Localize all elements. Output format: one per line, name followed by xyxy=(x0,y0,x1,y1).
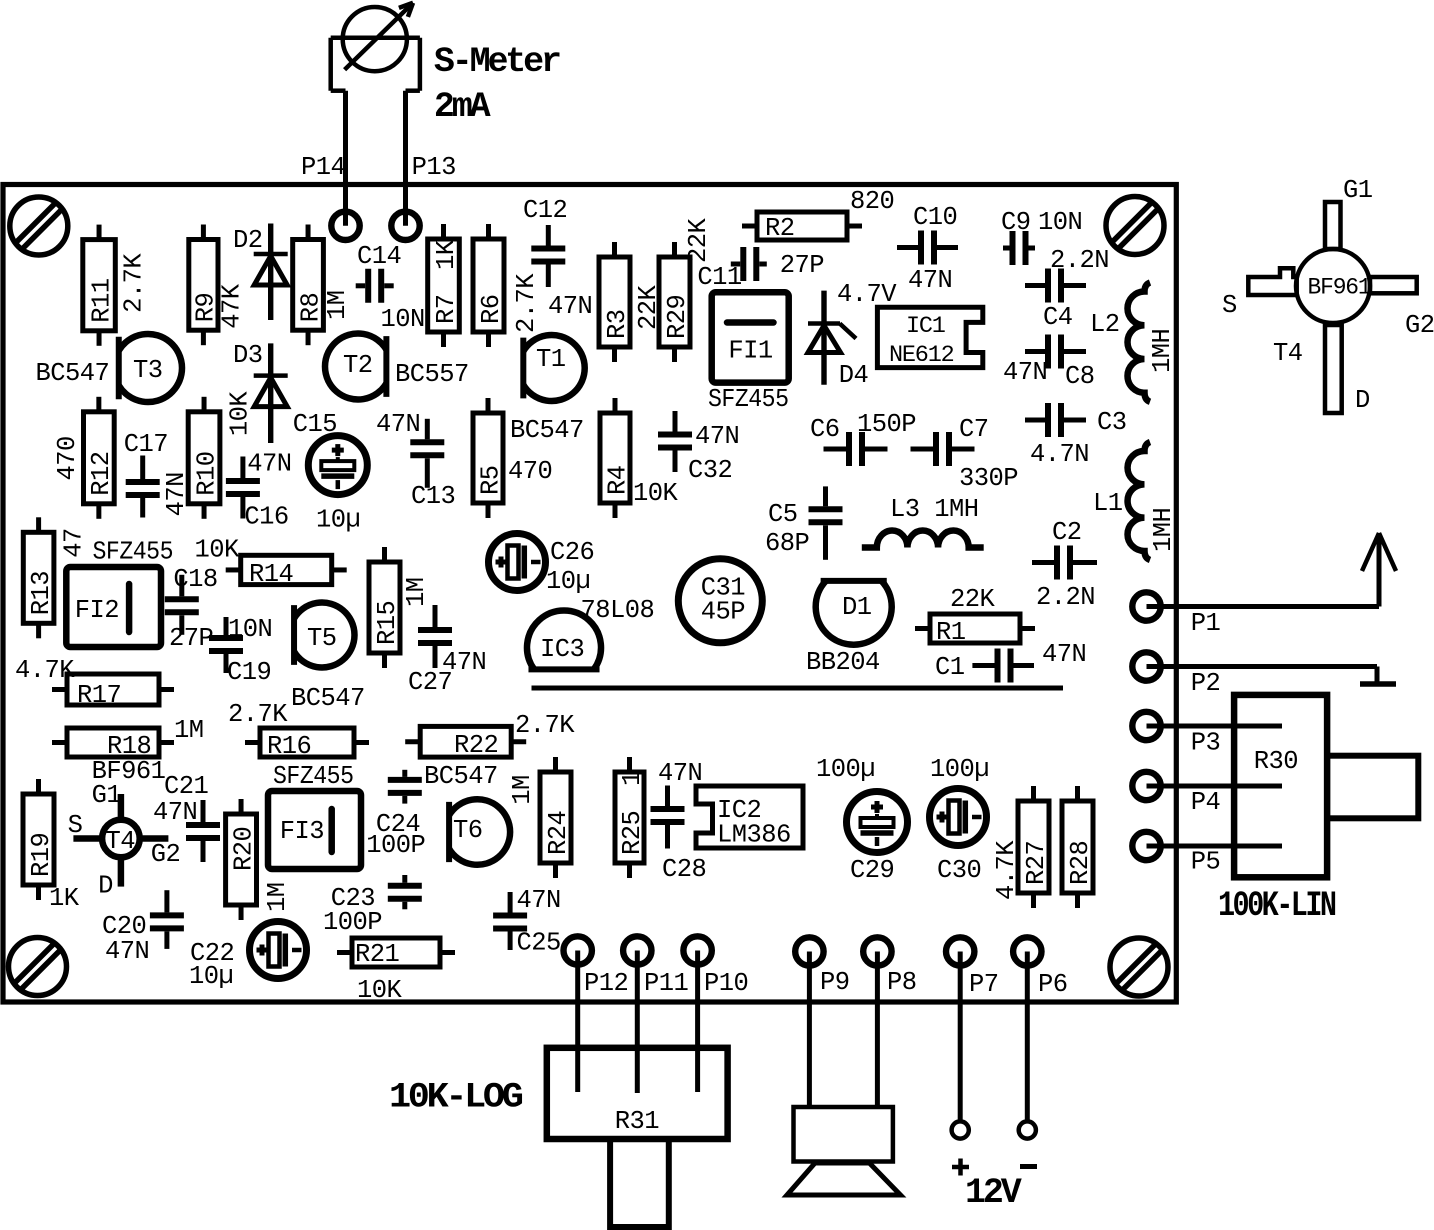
svg-text:R7: R7 xyxy=(432,294,461,324)
svg-text:10µ: 10µ xyxy=(546,567,590,596)
wire ground bus xyxy=(532,686,1064,691)
svg-text:R16: R16 xyxy=(267,732,311,761)
svg-text:10µ: 10µ xyxy=(189,962,233,991)
capacitor C23 xyxy=(323,875,422,937)
resistor R21 xyxy=(337,938,455,1005)
svg-text:R12: R12 xyxy=(87,452,116,496)
svg-text:R2: R2 xyxy=(765,214,795,243)
svg-text:P1: P1 xyxy=(1191,609,1221,638)
svg-text:C6: C6 xyxy=(810,415,840,444)
transistor T3 xyxy=(36,334,183,402)
resistor R29 xyxy=(659,217,713,362)
svg-text:P7: P7 xyxy=(969,970,999,999)
svg-text:4.7V: 4.7V xyxy=(837,280,897,309)
capacitor C27 xyxy=(408,605,486,697)
svg-text:C11: C11 xyxy=(697,263,742,292)
svg-text:SFZ455: SFZ455 xyxy=(273,762,354,791)
diode D1 (BB204) xyxy=(806,581,892,677)
svg-text:C21: C21 xyxy=(164,772,209,801)
ground symbol xyxy=(1360,681,1396,687)
resistor R25 xyxy=(615,757,647,878)
transistor T2 xyxy=(325,334,469,400)
svg-text:R6: R6 xyxy=(477,294,506,324)
svg-text:47: 47 xyxy=(59,528,88,558)
svg-text:P4: P4 xyxy=(1191,788,1221,817)
resistor R15 xyxy=(369,547,431,668)
svg-text:C16: C16 xyxy=(244,502,288,531)
svg-text:D2: D2 xyxy=(233,226,263,255)
svg-text:2.2N: 2.2N xyxy=(1050,246,1109,275)
svg-text:47N: 47N xyxy=(376,410,420,439)
svg-text:T1: T1 xyxy=(536,345,566,374)
wire P2 to ground xyxy=(1147,664,1378,669)
capacitor C22 (electrolytic) xyxy=(189,922,307,992)
resistor R3 xyxy=(599,242,663,362)
potentiometer R30 xyxy=(1218,695,1418,926)
svg-text:1MH: 1MH xyxy=(1148,329,1177,373)
svg-text:FI2: FI2 xyxy=(75,596,119,625)
svg-text:BF961: BF961 xyxy=(1308,274,1371,301)
resistor R6 xyxy=(473,224,541,347)
svg-text:47N: 47N xyxy=(695,422,739,451)
pad P11 xyxy=(623,936,688,998)
svg-text:R21: R21 xyxy=(355,940,400,969)
svg-text:2.7K: 2.7K xyxy=(120,253,149,313)
mounting hole bottom-right screw xyxy=(1110,938,1168,996)
capacitor C10 xyxy=(897,203,958,295)
svg-text:1K: 1K xyxy=(432,239,461,270)
svg-text:470: 470 xyxy=(53,436,82,480)
wire P13 to S-Meter xyxy=(403,91,408,226)
svg-text:2.7K: 2.7K xyxy=(228,700,288,729)
svg-text:1M: 1M xyxy=(402,577,431,607)
capacitor C24 xyxy=(366,770,425,860)
transistor T4 pinout (BF961) xyxy=(1222,176,1434,415)
svg-text:12V: 12V xyxy=(965,1173,1022,1213)
svg-text:2.7K: 2.7K xyxy=(515,711,575,740)
resistor R20 xyxy=(226,799,292,920)
svg-text:330P: 330P xyxy=(959,464,1018,493)
svg-text:47N: 47N xyxy=(548,292,592,321)
wire P5 to R30 xyxy=(1147,844,1283,849)
svg-text:LM386: LM386 xyxy=(717,821,791,850)
capacitor C11 xyxy=(697,247,824,292)
svg-text:R19: R19 xyxy=(27,833,56,877)
wire P7 to supply + xyxy=(958,952,963,1122)
svg-text:BC547: BC547 xyxy=(291,684,365,713)
svg-text:10µ: 10µ xyxy=(316,505,360,534)
capacitor C16 xyxy=(226,450,292,532)
svg-text:R28: R28 xyxy=(1066,841,1095,885)
capacitor C5 xyxy=(765,486,843,559)
resistor R10 xyxy=(188,391,254,519)
resistor R5 xyxy=(473,398,552,518)
pad P7 xyxy=(946,937,999,999)
capacitor C7 xyxy=(911,415,1019,493)
pad P6 xyxy=(1013,937,1067,999)
svg-text:R20: R20 xyxy=(229,827,258,871)
svg-text:R1: R1 xyxy=(936,618,966,647)
svg-text:1M: 1M xyxy=(508,775,537,805)
svg-text:C4: C4 xyxy=(1043,303,1073,332)
svg-text:IC1: IC1 xyxy=(906,313,945,340)
svg-text:1M: 1M xyxy=(263,882,292,912)
pad P12 xyxy=(564,936,629,998)
inductor L2 xyxy=(1090,283,1177,402)
capacitor C13 xyxy=(376,410,455,511)
svg-text:T3: T3 xyxy=(133,356,163,385)
svg-text:D3: D3 xyxy=(233,341,263,370)
svg-text:BC547: BC547 xyxy=(510,416,584,445)
svg-text:C9: C9 xyxy=(1001,208,1031,237)
capacitor C31 (trimmer) xyxy=(678,559,762,643)
svg-text:D4: D4 xyxy=(839,361,869,390)
svg-text:BB204: BB204 xyxy=(806,648,880,677)
svg-text:D: D xyxy=(1355,386,1370,415)
pad P9 xyxy=(795,937,849,997)
svg-text:R3: R3 xyxy=(603,309,632,339)
inductor L1 xyxy=(1093,442,1178,560)
wire P6 to supply - xyxy=(1025,952,1030,1122)
resistor R14 xyxy=(195,536,347,589)
svg-text:10K: 10K xyxy=(195,536,241,565)
capacitor C12 xyxy=(523,196,592,321)
svg-text:10K: 10K xyxy=(633,479,679,508)
svg-text:1M: 1M xyxy=(323,290,352,320)
IF filter FI1 xyxy=(708,292,789,414)
mounting hole bottom-left screw xyxy=(9,938,67,996)
svg-text:R27: R27 xyxy=(1022,841,1051,885)
pad P2 xyxy=(1132,652,1220,698)
capacitor C32 xyxy=(658,411,739,485)
svg-text:68P: 68P xyxy=(765,529,809,558)
svg-text:10N: 10N xyxy=(1038,208,1082,237)
svg-text:C5: C5 xyxy=(768,500,798,529)
svg-text:P2: P2 xyxy=(1191,669,1221,698)
pad P3 xyxy=(1132,712,1220,758)
svg-text:820: 820 xyxy=(850,187,894,216)
resistor R18 xyxy=(52,716,204,761)
svg-text:150P: 150P xyxy=(857,410,916,439)
svg-text:10N: 10N xyxy=(228,615,272,644)
resistor R9 xyxy=(189,225,247,346)
capacitor C14 xyxy=(356,242,425,334)
svg-text:R11: R11 xyxy=(87,278,116,323)
svg-text:100K-LIN: 100K-LIN xyxy=(1218,886,1335,926)
resistor R19 xyxy=(23,779,80,913)
svg-text:P3: P3 xyxy=(1191,729,1221,758)
svg-text:G2: G2 xyxy=(1405,311,1434,340)
diode D2 xyxy=(233,224,288,321)
mounting hole top-left screw xyxy=(10,197,68,255)
svg-text:P8: P8 xyxy=(887,968,917,997)
svg-text:100µ: 100µ xyxy=(816,755,875,784)
svg-text:P9: P9 xyxy=(820,968,850,997)
IC U1 (IC1 NE612) xyxy=(877,307,982,369)
pad P14 xyxy=(301,153,360,240)
svg-text:R15: R15 xyxy=(373,601,402,645)
svg-text:C15: C15 xyxy=(293,410,337,439)
svg-text:10K: 10K xyxy=(357,976,403,1005)
svg-text:C12: C12 xyxy=(523,196,567,225)
svg-text:C2: C2 xyxy=(1052,518,1082,547)
svg-text:10K: 10K xyxy=(225,391,254,437)
capacitor C6 xyxy=(810,410,916,466)
svg-text:P11: P11 xyxy=(644,969,689,998)
capacitor C25 xyxy=(493,886,561,957)
svg-text:T4: T4 xyxy=(1273,339,1303,368)
wire P4 to R30 xyxy=(1147,784,1283,789)
mounting hole top-right screw xyxy=(1106,197,1164,255)
svg-text:4.7N: 4.7N xyxy=(1030,440,1089,469)
resistor R17 xyxy=(15,656,174,710)
capacitor C8 xyxy=(1003,335,1095,392)
svg-text:100µ: 100µ xyxy=(930,755,989,784)
svg-text:78L08: 78L08 xyxy=(581,596,655,625)
svg-text:47N: 47N xyxy=(517,886,561,915)
svg-text:C30: C30 xyxy=(937,856,981,885)
svg-text:BC557: BC557 xyxy=(395,360,469,389)
pad P1 xyxy=(1132,592,1220,638)
capacitor C2 xyxy=(1032,518,1097,612)
svg-text:R5: R5 xyxy=(476,465,505,495)
wire P12 to R31 xyxy=(575,951,580,1093)
svg-text:10K-LOG: 10K-LOG xyxy=(389,1078,523,1118)
svg-text:FI3: FI3 xyxy=(280,817,324,846)
svg-text:T4: T4 xyxy=(106,827,136,856)
capacitor C19 xyxy=(209,615,272,687)
svg-text:D1: D1 xyxy=(842,593,872,622)
svg-text:FI1: FI1 xyxy=(728,337,773,366)
resistor R28 xyxy=(1062,786,1095,908)
svg-text:T6: T6 xyxy=(453,816,483,845)
svg-text:C14: C14 xyxy=(357,242,401,271)
svg-text:T2: T2 xyxy=(343,351,373,380)
svg-text:470: 470 xyxy=(508,457,552,486)
IF filter FI2 xyxy=(66,538,173,647)
svg-text:22K: 22K xyxy=(684,217,713,263)
resistor R4 xyxy=(600,398,679,518)
svg-text:2.7K: 2.7K xyxy=(512,273,541,333)
pad P8 xyxy=(863,937,916,997)
svg-text:P10: P10 xyxy=(704,969,748,998)
pad P4 xyxy=(1132,772,1220,817)
svg-text:SFZ455: SFZ455 xyxy=(708,385,789,414)
svg-text:47N: 47N xyxy=(153,798,197,827)
capacitor C18 xyxy=(165,565,218,653)
capacitor C17 xyxy=(124,430,191,518)
wire P8 to speaker xyxy=(875,952,880,1108)
svg-text:1: 1 xyxy=(618,771,647,786)
svg-text:G2: G2 xyxy=(151,840,181,869)
svg-text:1K: 1K xyxy=(49,884,80,913)
svg-text:47N: 47N xyxy=(1042,640,1086,669)
svg-text:10N: 10N xyxy=(381,305,425,334)
wire P11 to R31 xyxy=(635,951,640,1094)
diode D3 xyxy=(233,341,288,443)
speaker xyxy=(787,1107,901,1195)
svg-text:C32: C32 xyxy=(688,456,732,485)
svg-text:47N: 47N xyxy=(247,450,291,479)
capacitor C21 xyxy=(153,772,220,862)
resistor R11 xyxy=(83,225,149,346)
resistor R22 xyxy=(405,711,575,791)
svg-text:L3 1MH: L3 1MH xyxy=(890,495,979,524)
svg-text:G1: G1 xyxy=(92,781,122,810)
svg-text:T5: T5 xyxy=(307,624,337,653)
capacitor C9 xyxy=(1001,208,1082,265)
capacitor C3 xyxy=(1025,403,1127,469)
transistor T4 (on-board) xyxy=(68,781,181,900)
svg-text:47K: 47K xyxy=(218,283,247,329)
svg-text:R17: R17 xyxy=(77,681,121,710)
svg-text:R30: R30 xyxy=(1254,747,1298,776)
svg-text:C19: C19 xyxy=(227,658,271,687)
svg-text:C8: C8 xyxy=(1065,362,1095,391)
svg-text:IC3: IC3 xyxy=(540,635,584,664)
IC U2 (IC2 LM386) xyxy=(696,786,803,850)
svg-text:R25: R25 xyxy=(618,811,647,855)
supply terminal - xyxy=(1019,1121,1037,1166)
svg-text:27P: 27P xyxy=(169,624,213,653)
resistor R7 xyxy=(428,224,461,347)
svg-text:C3: C3 xyxy=(1097,408,1127,437)
svg-text:R29: R29 xyxy=(663,295,692,339)
svg-text:C1: C1 xyxy=(935,653,965,682)
svg-text:R8: R8 xyxy=(296,293,325,323)
svg-text:C25: C25 xyxy=(517,929,561,958)
svg-text:1MH: 1MH xyxy=(1149,508,1178,552)
capacitor C15 (electrolytic) xyxy=(293,410,368,534)
wire P10 to R31 xyxy=(695,951,700,1093)
resistor R27 xyxy=(992,786,1051,908)
voltage regulator IC3 (78L08) xyxy=(527,596,654,669)
svg-text:R10: R10 xyxy=(192,452,221,496)
svg-text:C7: C7 xyxy=(959,415,989,444)
svg-text:L2: L2 xyxy=(1090,310,1120,339)
pad P5 xyxy=(1132,832,1220,877)
svg-text:47N: 47N xyxy=(105,937,149,966)
capacitor C28 xyxy=(651,759,707,884)
svg-text:R9: R9 xyxy=(192,293,221,323)
capacitor C26 (electrolytic) xyxy=(489,534,595,597)
svg-text:47N: 47N xyxy=(908,266,952,295)
svg-text:D: D xyxy=(98,871,113,900)
svg-text:NE612: NE612 xyxy=(889,342,954,369)
svg-text:P12: P12 xyxy=(584,969,628,998)
svg-text:S-Meter: S-Meter xyxy=(434,42,560,82)
svg-text:BC547: BC547 xyxy=(36,359,110,388)
svg-text:1M: 1M xyxy=(174,716,204,745)
svg-text:C27: C27 xyxy=(408,668,452,697)
resistor R8 xyxy=(293,225,352,346)
svg-text:22K: 22K xyxy=(950,585,996,614)
pad P13 xyxy=(391,153,456,240)
svg-text:R13: R13 xyxy=(27,571,56,615)
svg-text:P14: P14 xyxy=(301,153,345,182)
svg-text:P13: P13 xyxy=(412,153,456,182)
supply terminal + xyxy=(952,1121,969,1175)
svg-text:C13: C13 xyxy=(411,482,455,511)
svg-text:R31: R31 xyxy=(615,1107,660,1136)
S-Meter body xyxy=(331,3,560,127)
zener diode D4 xyxy=(808,280,897,390)
svg-text:C26: C26 xyxy=(550,538,594,567)
resistor R13 xyxy=(23,517,88,638)
svg-text:100P: 100P xyxy=(323,908,382,937)
svg-text:47N: 47N xyxy=(1003,358,1047,387)
svg-text:45P: 45P xyxy=(701,598,745,627)
capacitor C29 (electrolytic) xyxy=(816,755,908,885)
svg-text:BC547: BC547 xyxy=(424,762,498,791)
resistor R12 xyxy=(53,397,116,519)
wire P1 to antenna xyxy=(1147,604,1380,609)
wire P9 to speaker xyxy=(807,952,812,1108)
capacitor C20 xyxy=(102,890,184,966)
svg-text:C28: C28 xyxy=(662,855,706,884)
svg-text:R14: R14 xyxy=(249,560,293,589)
transistor T1 xyxy=(510,335,585,445)
svg-text:S: S xyxy=(1222,291,1237,320)
svg-text:100P: 100P xyxy=(366,831,425,860)
potentiometer R31 xyxy=(389,1048,728,1227)
capacitor C30 (electrolytic) xyxy=(930,755,990,885)
svg-text:S: S xyxy=(68,811,83,840)
wire P14 to S-Meter xyxy=(343,91,348,226)
capacitor C1 xyxy=(935,640,1086,683)
svg-text:27P: 27P xyxy=(780,251,824,280)
svg-text:R4: R4 xyxy=(603,465,632,495)
resistor R24 xyxy=(508,757,573,878)
svg-text:G1: G1 xyxy=(1343,176,1373,205)
transistor T5 xyxy=(291,603,365,714)
svg-text:L1: L1 xyxy=(1093,489,1123,518)
svg-text:SFZ455: SFZ455 xyxy=(93,538,174,567)
IF filter FI3 xyxy=(268,791,361,869)
svg-text:C18: C18 xyxy=(173,565,217,594)
svg-text:4.7K: 4.7K xyxy=(15,656,75,685)
transistor T6 xyxy=(449,799,510,865)
svg-text:R24: R24 xyxy=(544,811,573,855)
svg-text:P5: P5 xyxy=(1191,848,1221,877)
resistor R1 xyxy=(915,585,1035,647)
svg-text:2.2N: 2.2N xyxy=(1036,583,1095,612)
pad P10 xyxy=(683,936,748,998)
svg-text:C10: C10 xyxy=(913,203,957,232)
svg-text:47N: 47N xyxy=(162,472,191,516)
svg-text:C17: C17 xyxy=(124,430,168,459)
inductor L3 xyxy=(862,495,984,548)
svg-text:2mA: 2mA xyxy=(434,87,491,127)
capacitor C4 xyxy=(1025,246,1109,332)
svg-text:R22: R22 xyxy=(454,731,498,760)
svg-text:4.7K: 4.7K xyxy=(992,840,1021,900)
svg-text:C29: C29 xyxy=(850,856,894,885)
wire P3 to R30 xyxy=(1147,724,1283,729)
resistor R16 xyxy=(228,700,369,791)
svg-text:P6: P6 xyxy=(1038,970,1068,999)
board outline xyxy=(3,185,1176,1003)
antenna xyxy=(1362,533,1396,607)
resistor R2 xyxy=(742,187,894,243)
